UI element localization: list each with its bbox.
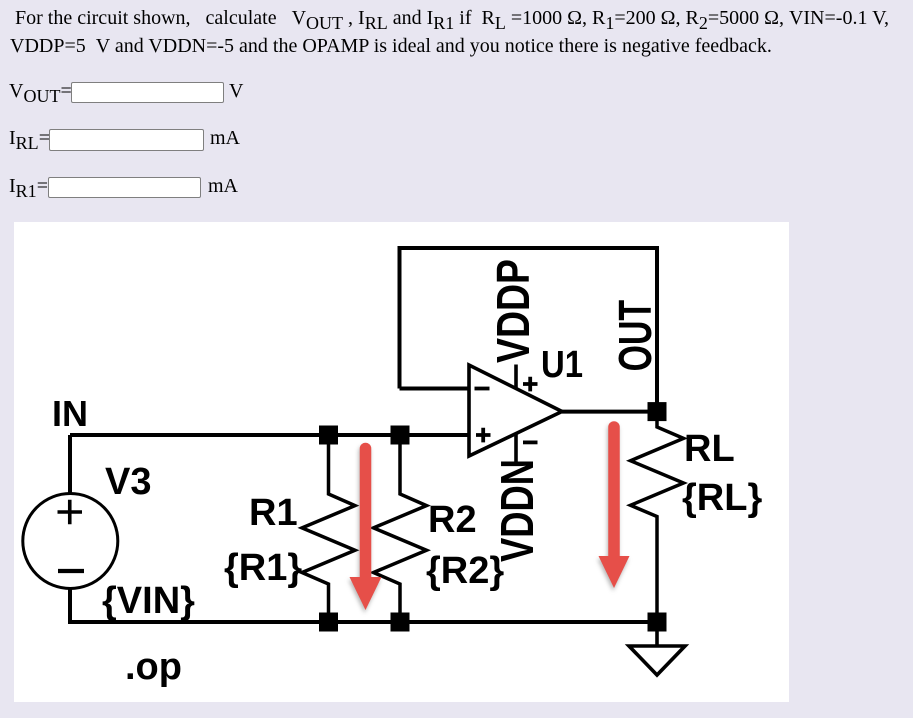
junction R2 top xyxy=(391,426,410,445)
svg-text:{RL}: {RL} xyxy=(682,477,762,519)
unit mA xyxy=(208,175,238,198)
op-amp VDDP power pin xyxy=(514,365,518,389)
unit V xyxy=(229,80,243,103)
VDDN pin minus mark xyxy=(523,440,538,444)
svg-text:V3: V3 xyxy=(105,461,151,503)
svg-text:VDDN: VDDN xyxy=(491,459,543,562)
junction ground xyxy=(648,613,667,632)
svg-text:{R1}: {R1} xyxy=(224,547,302,589)
answer input VOUT xyxy=(71,82,224,104)
voltage source V3 circle xyxy=(23,494,118,589)
current arrow R1/R2 xyxy=(350,449,382,611)
problem statement paragraph xyxy=(10,5,905,60)
resistor RL xyxy=(631,412,684,622)
junction output xyxy=(648,402,667,421)
op-amp U1 triangle xyxy=(469,365,562,456)
VDDP pin plus mark xyxy=(523,377,538,392)
svg-text:IN: IN xyxy=(52,393,88,434)
wire V3 bottom stub xyxy=(68,589,72,623)
junction R1 top xyxy=(319,426,338,445)
op-amp VDDN power pin xyxy=(514,434,518,464)
resistor R2 xyxy=(374,435,427,622)
answer row VOUT label xyxy=(9,80,72,103)
wire feedback loop xyxy=(400,248,658,412)
junction R1 bottom xyxy=(319,613,338,632)
white schematic background xyxy=(14,222,789,702)
wire IN rail xyxy=(70,433,469,437)
current arrow RL xyxy=(599,427,630,588)
resistor R1 xyxy=(302,435,355,622)
op-amp non-inverting plus mark xyxy=(476,428,491,443)
V3 plus symbol xyxy=(58,500,83,525)
wire V3 top stub xyxy=(68,435,72,494)
svg-text:U1: U1 xyxy=(541,344,583,386)
svg-text:OUT: OUT xyxy=(609,300,661,372)
op-amp inverting minus mark xyxy=(475,387,490,391)
answer input IR1 xyxy=(48,177,201,199)
ground symbol xyxy=(629,646,685,675)
svg-text:R2: R2 xyxy=(428,499,477,541)
unit mA xyxy=(210,127,240,150)
svg-text:VDDP: VDDP xyxy=(487,259,539,363)
answer input IRL xyxy=(49,129,204,151)
answer row IR1 label xyxy=(9,175,48,198)
wire inverting input xyxy=(400,387,469,391)
answer row IRL label xyxy=(9,127,50,150)
ground stub xyxy=(655,631,659,646)
wire output xyxy=(562,410,657,414)
wire bottom rail xyxy=(68,620,657,624)
svg-text:{VIN}: {VIN} xyxy=(102,580,195,622)
svg-text:R1: R1 xyxy=(249,492,298,534)
V3 minus symbol xyxy=(58,569,84,573)
svg-text:.op: .op xyxy=(125,646,182,688)
svg-text:RL: RL xyxy=(684,428,735,470)
junction R2 bottom xyxy=(391,613,410,632)
